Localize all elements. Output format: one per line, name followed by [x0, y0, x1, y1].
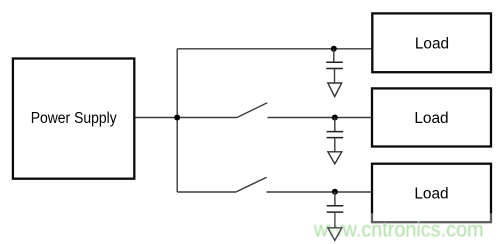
capacitor C3 — [327, 192, 344, 212]
wire: middle branch right segment — [268, 117, 373, 119]
capacitor C2 — [327, 118, 344, 152]
node: trunk junction — [174, 115, 180, 121]
ground 1 — [328, 83, 342, 97]
load box 2 — [372, 88, 491, 146]
wire: middle branch left segment — [177, 117, 237, 119]
node: bottom branch junction — [332, 189, 338, 195]
svg-text:Load: Load — [414, 110, 448, 127]
switch SW2 blade (bottom) — [236, 177, 267, 192]
wire: vertical trunk — [176, 49, 178, 192]
ground 2 — [328, 152, 342, 164]
load box 1 — [372, 13, 491, 72]
switch SW1 blade (middle) — [237, 103, 267, 118]
power supply box — [13, 59, 134, 179]
node: middle branch junction — [332, 115, 338, 121]
node: top branch junction — [331, 46, 337, 52]
capacitor C1 — [326, 49, 343, 83]
svg-text:Load: Load — [414, 186, 448, 203]
svg-text:Load: Load — [415, 36, 449, 53]
load box 3 — [372, 164, 491, 223]
svg-text:Power Supply: Power Supply — [31, 110, 117, 127]
ground 3 — [328, 228, 342, 241]
wire: bottom branch right segment — [267, 191, 373, 193]
wire: top branch — [177, 48, 372, 50]
watermark translucent band — [0, 213, 500, 244]
wire: bottom branch left segment — [177, 191, 236, 193]
wire: power supply to trunk — [134, 117, 177, 119]
wire: C3 to ground 3 — [334, 212, 336, 228]
